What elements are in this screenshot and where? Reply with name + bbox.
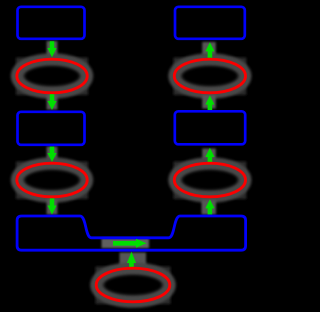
halo behind node A4	[16, 162, 88, 200]
edge D1 arrow down	[47, 41, 56, 57]
edge D3 arrow down	[47, 147, 56, 162]
node A4 ellipse	[17, 163, 87, 197]
node W wide notched box	[17, 216, 246, 250]
node B2 ellipse	[174, 59, 245, 93]
edge M arrow right (inside notch)	[113, 239, 147, 248]
halo behind node C1	[96, 267, 171, 305]
halo behind node A2	[16, 58, 88, 96]
edge D2 arrow down	[47, 94, 56, 110]
edge U2 arrow up	[205, 95, 214, 110]
halo behind edge U2	[202, 95, 216, 109]
edge U4 arrow up	[205, 199, 214, 214]
edge U1 arrow up	[205, 42, 214, 58]
halo behind edge D2	[47, 94, 58, 110]
halo behind edge D3	[47, 147, 58, 163]
halo behind node B4	[174, 162, 247, 200]
halo behind edge U3	[202, 149, 216, 162]
node A1 box	[18, 7, 85, 39]
edge B arrow up (bottom)	[127, 252, 136, 267]
halo behind edge U4	[202, 200, 217, 215]
node B1 box	[175, 7, 245, 39]
halo behind edge D1	[47, 41, 58, 57]
node A2 ellipse	[17, 59, 87, 93]
halo behind mid edge	[102, 238, 150, 248]
edge U3 arrow up	[205, 148, 214, 162]
halo behind edge U1	[202, 42, 216, 56]
node B4 ellipse	[174, 163, 245, 197]
node A3 box	[18, 112, 85, 145]
halo behind node B2	[174, 58, 247, 96]
node C1 bottom ellipse	[96, 268, 170, 302]
halo behind edge bottom-up	[120, 253, 147, 268]
edge D4 arrow down	[47, 198, 56, 214]
node B3 box	[175, 111, 245, 144]
halo behind edge D4	[47, 199, 58, 215]
